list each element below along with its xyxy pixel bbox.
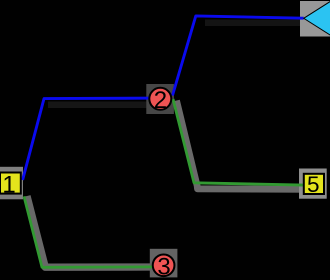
wire 1-3 green xyxy=(24,196,153,267)
wire 1-2 blue xyxy=(23,98,160,180)
faint band under wire 2-T xyxy=(205,20,301,27)
svg-text:2: 2 xyxy=(154,87,167,114)
svg-text:1: 1 xyxy=(2,171,15,198)
label box node 5 xyxy=(299,169,327,199)
wire 2-T blue xyxy=(173,16,304,96)
svg-text:5: 5 xyxy=(307,172,320,197)
wire 2-5 green xyxy=(173,99,309,185)
faint band under wire 1-2 xyxy=(48,102,150,109)
label box node T xyxy=(300,1,330,37)
grey underlay wire 1-3 xyxy=(27,196,153,267)
node 3 (red circle) xyxy=(153,254,175,280)
node T (cyan triangle) xyxy=(304,0,330,38)
node 2 (red circle) xyxy=(149,87,171,114)
label box node 3 xyxy=(150,249,178,278)
label box node 1 xyxy=(0,167,23,200)
svg-text:3: 3 xyxy=(157,254,170,280)
label box node 2 xyxy=(146,84,174,114)
node 1 (yellow square) xyxy=(0,171,21,198)
node 5 (yellow square) xyxy=(304,172,324,197)
grey underlay wire 2-5 xyxy=(177,101,310,190)
